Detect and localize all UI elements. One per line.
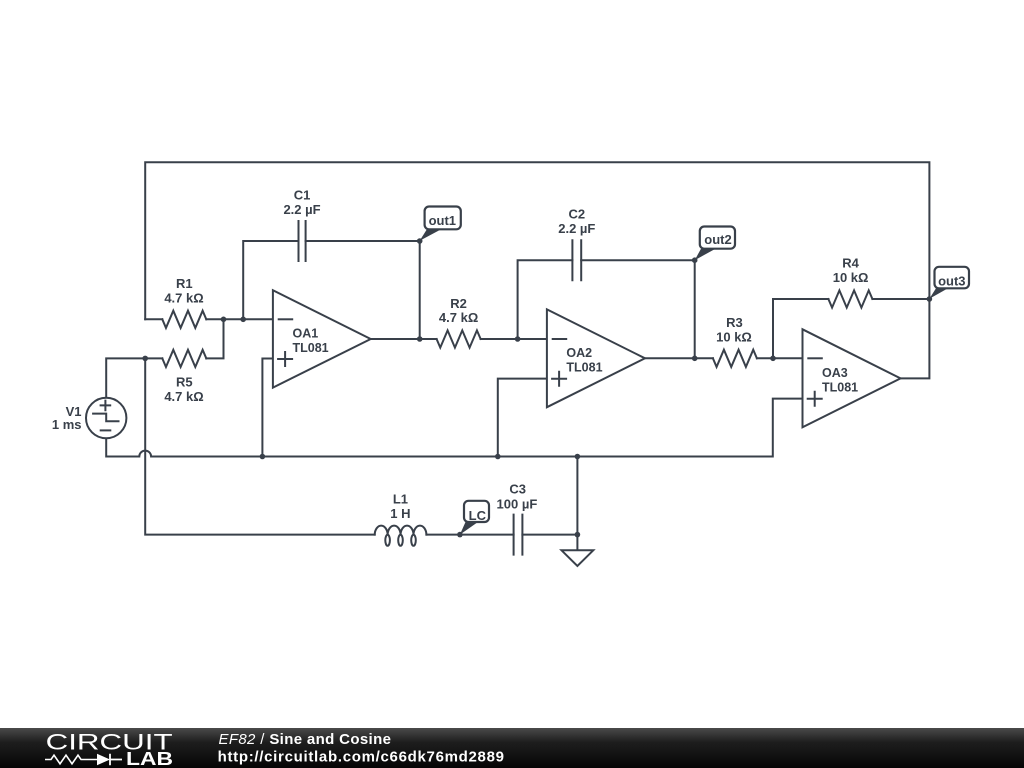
- wire node I up to R4 left lead: [773, 299, 828, 358]
- wire OA1 output to node D: [371, 338, 437, 340]
- op-amp OA2: [547, 309, 645, 407]
- wire R1 right lead to OA1 inverting input: [206, 318, 273, 320]
- svg-text:10 kΩ: 10 kΩ: [833, 270, 869, 285]
- svg-text:R4: R4: [842, 256, 859, 271]
- svg-text:2.2 µF: 2.2 µF: [558, 221, 595, 236]
- inductor L1 humps: [375, 526, 427, 535]
- svg-text:LC: LC: [469, 508, 487, 523]
- svg-text:OA1: OA1: [293, 327, 319, 341]
- svg-text:OA3: OA3: [822, 366, 848, 380]
- svg-text:100 µF: 100 µF: [497, 497, 538, 512]
- node C (C1 right / out1): [417, 238, 423, 244]
- svg-text:C3: C3: [509, 482, 526, 497]
- wire V1 plus terminal up and right to R5 left lead: [106, 358, 162, 397]
- svg-text:out3: out3: [938, 273, 965, 288]
- wire node G down to node H: [694, 260, 696, 358]
- wire OA2 non-inverting input down to rail: [498, 379, 547, 457]
- voltage source V1: [86, 398, 126, 438]
- resistor R5: [162, 350, 206, 367]
- svg-text:C2: C2: [568, 207, 585, 222]
- node B (C1 tap on inverting input): [240, 317, 246, 323]
- wire node A down to R5 right lead: [206, 319, 223, 358]
- wire node C down to node D: [419, 241, 421, 339]
- node F (C2 tap on OA2 inverting input): [515, 336, 521, 342]
- svg-text:TL081: TL081: [566, 360, 602, 374]
- resistor R1: [162, 311, 206, 328]
- svg-text:out1: out1: [429, 213, 456, 228]
- capacitor C1: [299, 221, 306, 261]
- logo resistor zigzag: [45, 755, 97, 764]
- svg-text:1 ms: 1 ms: [52, 417, 82, 432]
- op-amp OA1: [273, 290, 371, 387]
- wire R2 right lead to OA2 inverting input: [481, 338, 547, 340]
- node I (R4 tap on OA3 inverting input): [770, 356, 776, 362]
- svg-text:http://circuitlab.com/c66dk76m: http://circuitlab.com/c66dk76md2889: [218, 748, 505, 765]
- svg-text:TL081: TL081: [293, 341, 329, 355]
- svg-text:R3: R3: [726, 315, 743, 330]
- svg-text:LAB: LAB: [126, 749, 173, 768]
- node flag LC: [460, 501, 489, 535]
- svg-text:out2: out2: [704, 232, 731, 247]
- node K (LC flag node): [457, 532, 463, 538]
- inductor L1 bottom loops: [385, 535, 390, 546]
- svg-text:4.7 kΩ: 4.7 kΩ: [164, 290, 203, 305]
- wire R3 right lead to OA3 inverting input: [757, 357, 803, 359]
- node O (ground branch rail junction): [575, 454, 581, 460]
- ground: [576, 535, 578, 551]
- svg-text:2.2 µF: 2.2 µF: [283, 202, 320, 217]
- svg-text:OA2: OA2: [566, 346, 592, 360]
- node E (V1/R5/LC branch): [142, 356, 148, 362]
- resistor R4: [828, 290, 872, 307]
- wire node F up to C2 left plate: [518, 260, 573, 339]
- wire C1 right plate to node C: [306, 240, 420, 242]
- node H (OA2 output junction): [692, 356, 698, 362]
- wire R4 right lead to node J: [872, 298, 929, 300]
- node flag out3: [929, 267, 969, 299]
- wire bottom rail from V1 minus terminal, hop over x=145, to OA3 non-inverting input: [106, 399, 802, 457]
- node A (R1/R5 junction): [221, 317, 227, 323]
- capacitor C3: [514, 515, 523, 555]
- resistor R2: [437, 330, 481, 347]
- node J (out3 junction): [927, 296, 933, 302]
- wire node B up to C1 left plate: [243, 241, 298, 319]
- wire R1 left lead: [145, 318, 162, 320]
- svg-text:R2: R2: [450, 296, 467, 311]
- svg-text:L1: L1: [393, 492, 408, 507]
- svg-text:C1: C1: [294, 187, 311, 202]
- node N (OA2 + rail junction): [495, 454, 501, 460]
- wire OA1 non-inverting input down to rail: [262, 359, 273, 457]
- wire C2 right plate to node G: [581, 259, 695, 261]
- svg-text:TL081: TL081: [822, 380, 858, 394]
- capacitor C2: [572, 240, 581, 280]
- node flag out1: [420, 207, 461, 241]
- op-amp OA3: [803, 329, 901, 427]
- svg-text:R5: R5: [176, 375, 193, 390]
- node flag out2: [695, 227, 735, 261]
- wire ground node up to bottom rail: [576, 457, 578, 535]
- svg-text:4.7 kΩ: 4.7 kΩ: [164, 389, 203, 404]
- node G (C2 right / out2): [692, 257, 698, 263]
- svg-text:10 kΩ: 10 kΩ: [716, 330, 752, 345]
- resistor R3: [713, 350, 757, 367]
- wire node E down to LC branch and right to L1: [145, 358, 375, 534]
- wire L1 to C3 left plate: [426, 534, 513, 536]
- svg-text:R1: R1: [176, 276, 193, 291]
- logo diode: [97, 754, 110, 765]
- node L (C3/ground junction): [575, 532, 581, 538]
- svg-text:1 H: 1 H: [390, 506, 410, 521]
- node D (OA1 output junction): [417, 336, 423, 342]
- svg-text:EF82 / Sine and Cosine: EF82 / Sine and Cosine: [219, 731, 392, 748]
- wire C3 right plate to ground node: [522, 534, 577, 536]
- wire OA2 output to node H: [645, 357, 713, 359]
- wire top feedback from R1 left up, across top, down right side to OA3 output: [145, 162, 929, 378]
- node M (OA1 + rail junction): [260, 454, 266, 460]
- svg-text:4.7 kΩ: 4.7 kΩ: [439, 310, 478, 325]
